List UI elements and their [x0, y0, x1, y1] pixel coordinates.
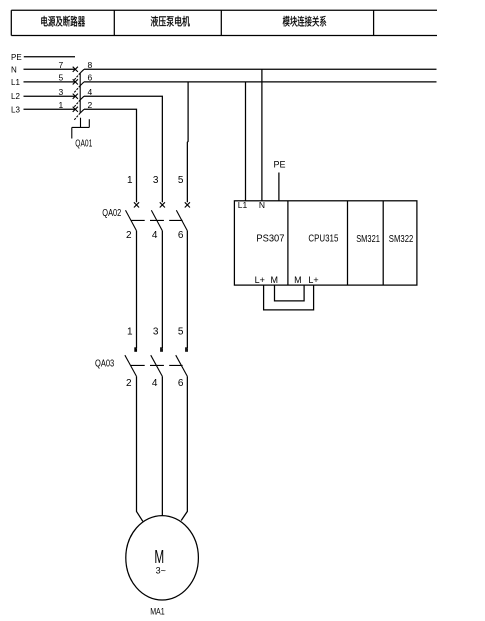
svg-text:CPU315: CPU315 — [308, 234, 338, 245]
svg-text:2: 2 — [126, 230, 132, 241]
svg-text:6: 6 — [178, 230, 184, 241]
contactor QA03 pole 1 — [125, 347, 137, 376]
svg-text:L3: L3 — [11, 105, 20, 114]
wire L2 rail left — [24, 95, 76, 97]
contactor QA03 pole 3 — [176, 347, 188, 376]
svg-text:PE: PE — [11, 53, 22, 62]
PLC rack dividers — [288, 201, 383, 285]
svg-text:2: 2 — [126, 378, 132, 389]
breaker QA01 pole 2 (L1) — [73, 79, 84, 93]
contactor QA03 pole 2 — [151, 347, 163, 376]
wire L3 rail right to QA02 pole 1 — [84, 109, 137, 202]
wire QA03 to motor phase 1 — [137, 376, 143, 521]
breaker QA01 pole 3 (L2) — [73, 94, 84, 108]
svg-text:4: 4 — [152, 230, 158, 241]
svg-text:6: 6 — [178, 378, 184, 389]
wire N rail to PLC N terminal — [261, 69, 263, 201]
svg-text:M: M — [154, 546, 164, 567]
wire L1 rail to QA02 pole 3 — [186, 82, 189, 202]
svg-text:PE: PE — [273, 160, 285, 170]
svg-text:5: 5 — [178, 175, 184, 186]
breaker QA02 pole 2 — [151, 202, 165, 230]
wire PE rail — [24, 56, 75, 58]
svg-text:7: 7 — [58, 60, 63, 70]
wire L+ to L+ link — [264, 285, 314, 310]
svg-text:1: 1 — [127, 175, 133, 186]
svg-text:QA02: QA02 — [102, 208, 121, 219]
motor MA1 — [126, 516, 199, 600]
svg-text:2: 2 — [87, 100, 92, 110]
svg-text:4: 4 — [152, 378, 158, 389]
svg-text:PS307: PS307 — [256, 234, 284, 245]
wire QA03 to motor phase 2 — [161, 376, 163, 515]
svg-text:1: 1 — [58, 100, 63, 110]
svg-text:L1: L1 — [11, 78, 20, 87]
wire L1 rail to PLC L1 terminal — [245, 82, 247, 201]
svg-text:N: N — [11, 65, 17, 74]
svg-text:SM321: SM321 — [356, 234, 380, 245]
svg-text:3: 3 — [153, 326, 159, 337]
wire L2 rail right to QA02 pole 2 — [84, 96, 162, 202]
wire M to M link — [275, 285, 305, 301]
svg-text:3: 3 — [58, 87, 63, 97]
wire N rail right — [84, 68, 437, 70]
svg-text:QA03: QA03 — [95, 358, 115, 369]
svg-text:3: 3 — [153, 175, 159, 186]
wire L1 rail left — [24, 81, 76, 83]
breaker QA02 pole 1 — [126, 202, 140, 230]
svg-text:6: 6 — [87, 73, 92, 83]
svg-text:M: M — [294, 275, 302, 285]
wire L3 rail left — [24, 108, 76, 110]
breaker QA01 pole 1 (N) — [73, 67, 84, 81]
svg-text:3~: 3~ — [156, 565, 166, 575]
breaker QA02 pole 3 — [176, 202, 190, 230]
svg-text:M: M — [270, 275, 278, 285]
svg-text:L+: L+ — [308, 275, 318, 285]
svg-text:SM322: SM322 — [389, 234, 414, 245]
svg-text:4: 4 — [87, 87, 92, 97]
svg-text:L2: L2 — [11, 92, 20, 101]
svg-text:5: 5 — [58, 73, 63, 83]
svg-text:1: 1 — [127, 326, 133, 337]
svg-text:N: N — [259, 200, 265, 210]
svg-text:QA01: QA01 — [75, 138, 92, 149]
svg-text:5: 5 — [178, 326, 184, 337]
title block — [11, 10, 437, 35]
breaker QA01 pole 4 (L3) — [73, 107, 84, 121]
breaker QA02 linkage — [131, 219, 183, 221]
wire N rail left — [24, 68, 76, 70]
contactor QA03 linkage — [131, 364, 183, 366]
wire QA02 to QA03 phase 1 — [136, 231, 138, 349]
svg-text:8: 8 — [87, 60, 92, 70]
wire QA02 to QA03 phase 3 — [186, 231, 188, 349]
wire QA02 to QA03 phase 2 — [161, 231, 163, 349]
PLC rack outline — [234, 201, 417, 285]
wire L1 rail right — [84, 81, 437, 83]
svg-text:L1: L1 — [238, 200, 248, 210]
breaker QA01 actuator bracket — [72, 118, 90, 139]
svg-text:MA1: MA1 — [150, 606, 165, 616]
breaker QA01 linkage bar — [79, 73, 81, 113]
wire PE stub to PLC — [278, 173, 280, 201]
wire QA03 to motor phase 3 — [181, 376, 187, 520]
svg-text:L+: L+ — [255, 275, 265, 285]
